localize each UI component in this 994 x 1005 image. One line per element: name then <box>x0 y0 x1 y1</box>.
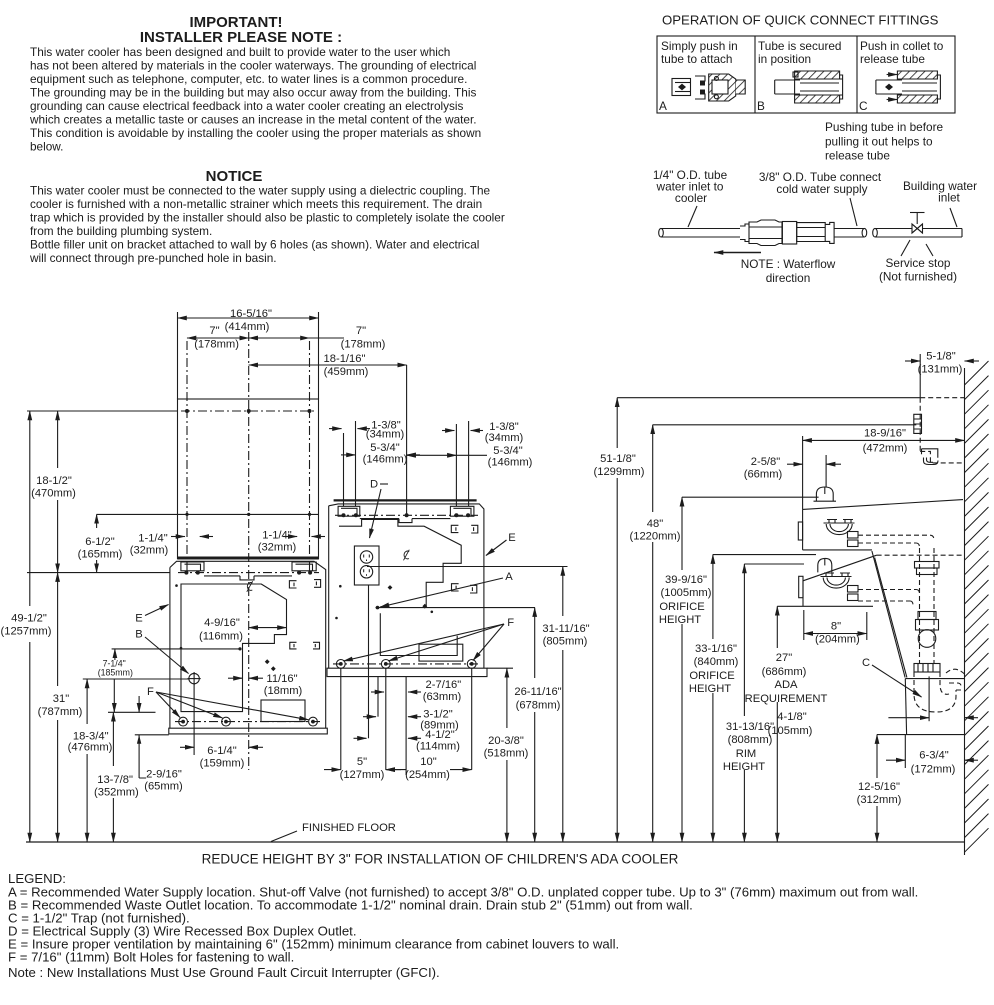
svg-text:7": 7" <box>356 325 366 337</box>
svg-text:8": 8" <box>831 621 841 633</box>
lower bubbler <box>818 558 832 572</box>
dimension 33-1/16 orifice height <box>689 555 739 842</box>
svg-text:Push in collet to: Push in collet to <box>860 39 944 53</box>
floor line <box>26 822 965 842</box>
svg-text:(178mm): (178mm) <box>194 339 239 351</box>
svg-text:pulling it out helps to: pulling it out helps to <box>825 134 933 148</box>
dimension 1-3/8 right pair <box>442 421 524 444</box>
svg-text:(66mm): (66mm) <box>744 469 783 481</box>
right cooler wall bolts F <box>333 660 480 669</box>
svg-text:48": 48" <box>647 518 663 530</box>
supply riser pipe dashed <box>920 548 935 663</box>
bottle filler mounting bracket <box>914 414 922 433</box>
svg-text:FINISHED FLOOR: FINISHED FLOOR <box>302 822 396 834</box>
fitting glyph A <box>672 74 745 101</box>
right cooler louver clips <box>451 525 478 593</box>
svg-text:(472mm): (472mm) <box>863 443 908 455</box>
dimension 2-5/8 <box>744 455 841 487</box>
svg-text:7": 7" <box>209 325 219 337</box>
svg-text:REQUIREMENT: REQUIREMENT <box>745 693 828 705</box>
dimension 13-7/8 <box>94 679 139 842</box>
lower cooler profile <box>799 555 877 606</box>
svg-text:grounding can cause electrical: grounding can cause electrical feedback … <box>30 99 464 113</box>
svg-text:equipment such as telephone, c: equipment such as telephone, computer, e… <box>30 72 467 86</box>
svg-text:33-1/16": 33-1/16" <box>695 643 737 655</box>
label C <box>862 657 922 697</box>
svg-text:(131mm): (131mm) <box>918 364 963 376</box>
extension line 18-1/16 to right cooler center <box>406 365 408 514</box>
right cooler center marks <box>335 585 433 619</box>
quick connect fittings panel <box>657 13 955 114</box>
right cooler interior outline <box>339 520 461 608</box>
right cooler hole column lines <box>344 421 469 506</box>
svg-text:18-1/2": 18-1/2" <box>36 475 72 487</box>
dimension 48 <box>630 425 681 842</box>
svg-text:31": 31" <box>53 693 69 705</box>
dimension 8 inch <box>804 610 867 646</box>
svg-text:cooler: cooler <box>675 191 707 205</box>
svg-text:(805mm): (805mm) <box>543 636 588 648</box>
svg-text:HEIGHT: HEIGHT <box>659 614 701 626</box>
svg-text:E: E <box>135 613 142 625</box>
label E right <box>486 532 516 556</box>
dimension 3-1/2 <box>363 708 459 731</box>
right cooler louver opening <box>419 644 463 661</box>
footer <box>8 852 918 981</box>
left cooler tab bolt row <box>178 571 319 575</box>
svg-text:(146mm): (146mm) <box>488 457 533 469</box>
svg-text:(172mm): (172mm) <box>911 764 956 776</box>
svg-text:ORIFICE: ORIFICE <box>659 601 704 613</box>
label F right <box>344 617 515 661</box>
alcove recess <box>877 679 965 735</box>
svg-text:REDUCE HEIGHT BY 3" FOR INSTAL: REDUCE HEIGHT BY 3" FOR INSTALLATION OF … <box>202 852 679 867</box>
svg-text:Pushing tube in before: Pushing tube in before <box>825 120 943 134</box>
svg-text:5-1/8": 5-1/8" <box>926 351 955 363</box>
svg-text:C: C <box>862 657 870 669</box>
dimension 5-3/4 right <box>407 445 533 469</box>
svg-text:release tube: release tube <box>825 149 890 163</box>
bottle filler panel <box>177 399 319 559</box>
dimension 39-9/16 orifice height <box>659 497 712 842</box>
svg-text:13-7/8": 13-7/8" <box>97 774 133 786</box>
svg-text:(476mm): (476mm) <box>68 742 113 754</box>
svg-text:(18mm): (18mm) <box>264 685 303 697</box>
svg-text:tube to attach: tube to attach <box>661 52 733 66</box>
supply height reference line left <box>112 647 242 650</box>
svg-text:4-9/16": 4-9/16" <box>204 617 240 629</box>
upper basin drain <box>824 520 859 547</box>
left cooler top bracket tabs <box>181 562 316 580</box>
svg-text:18-1/16": 18-1/16" <box>324 353 366 365</box>
leaders service stop <box>901 240 933 256</box>
lower drain pipes dashed <box>858 590 920 606</box>
cooler body taper <box>872 551 907 735</box>
svg-text:49-1/2": 49-1/2" <box>11 613 47 625</box>
svg-text:(1220mm): (1220mm) <box>630 531 681 543</box>
svg-text:(105mm): (105mm) <box>768 725 813 737</box>
panel hole centerline right <box>309 341 311 573</box>
dimension 31 <box>38 573 83 842</box>
left cooler louver clips <box>289 580 320 649</box>
svg-text:(204mm): (204mm) <box>815 634 860 646</box>
right cooler bottom flange <box>327 668 487 676</box>
dimension 5-1/8 <box>905 351 979 398</box>
svg-text:(116mm): (116mm) <box>199 631 243 643</box>
electrical outlet box D <box>354 546 379 585</box>
svg-text:27": 27" <box>776 652 792 664</box>
panel edge extensions <box>178 312 319 399</box>
svg-text:6-1/2": 6-1/2" <box>85 536 114 548</box>
svg-text:(185mm): (185mm) <box>98 668 133 678</box>
svg-text:F: F <box>147 686 154 698</box>
svg-text:5": 5" <box>357 756 367 768</box>
waste height reference line left <box>83 678 189 680</box>
lower basin drain <box>821 573 859 601</box>
fitting glyph C <box>876 71 941 103</box>
dimension 6-1/2 <box>78 514 123 572</box>
dimension 49-1/2 <box>1 411 52 842</box>
wall <box>964 368 966 855</box>
svg-text:(159mm): (159mm) <box>200 758 245 770</box>
dimension 5 inch <box>324 756 401 781</box>
bottle filler side profile dashed <box>920 398 964 463</box>
svg-text:1-1/4": 1-1/4" <box>138 533 167 545</box>
svg-text:which creates a metallic taste: which creates a metallic taste or causes… <box>29 113 477 127</box>
svg-text:This water cooler must be conn: This water cooler must be connected to t… <box>30 184 491 198</box>
svg-text:12-5/16": 12-5/16" <box>858 781 900 793</box>
svg-text:A: A <box>505 571 513 583</box>
svg-text:(678mm): (678mm) <box>516 700 561 712</box>
svg-text:(32mm): (32mm) <box>130 545 169 557</box>
svg-text:ORIFICE: ORIFICE <box>689 670 734 682</box>
left cooler bottom flange <box>169 728 327 734</box>
dimension 31-13/16 rim height <box>723 564 774 842</box>
building water tube <box>873 228 962 237</box>
svg-text:(787mm): (787mm) <box>38 706 83 718</box>
panel lower hole row reference line <box>97 513 319 515</box>
label B <box>135 629 188 674</box>
dimension 7-1/4 <box>98 649 133 678</box>
svg-text:18-9/16": 18-9/16" <box>864 428 906 440</box>
lower cooler hidden top dashed <box>877 554 963 556</box>
svg-text:The grounding may be in the bu: The grounding may be in the building but… <box>30 86 476 100</box>
dimension 26-11/16 <box>514 608 561 842</box>
dimension 1-1/4 right <box>258 530 325 554</box>
svg-text:cooler is furnished with a non: cooler is furnished with a non-metallic … <box>30 197 482 211</box>
svg-text:This condition is avoidable by: This condition is avoidable by installin… <box>30 126 481 140</box>
svg-text:(146mm): (146mm) <box>363 454 408 466</box>
svg-text:6-1/4": 6-1/4" <box>207 745 236 757</box>
svg-text:(459mm): (459mm) <box>324 366 369 378</box>
svg-text:NOTE : Waterflow: NOTE : Waterflow <box>741 257 836 271</box>
svg-text:trap which is provided by the: trap which is provided by the installer … <box>30 211 505 225</box>
svg-text:51-1/8": 51-1/8" <box>600 453 636 465</box>
svg-text:2-7/16": 2-7/16" <box>426 679 462 691</box>
svg-text:(127mm): (127mm) <box>340 769 385 781</box>
svg-text:3-1/2": 3-1/2" <box>423 708 452 720</box>
inline coupling body <box>740 220 834 246</box>
dimension 6-3/4 <box>886 735 978 776</box>
wall hatching <box>965 361 989 852</box>
svg-text:has not been altered by materi: has not been altered by materials in the… <box>30 59 476 73</box>
right cooler cabinet <box>329 500 484 668</box>
label D <box>370 479 389 539</box>
right cooler tab bolt row <box>335 513 478 517</box>
svg-text:will connect through pre-punch: will connect through pre-punched hole in… <box>29 251 277 265</box>
svg-text:2-9/16": 2-9/16" <box>146 769 182 781</box>
left cooler wall bolts F <box>175 717 320 726</box>
dimension 18-1/16 <box>249 353 407 378</box>
upper orifice reference line <box>682 496 819 498</box>
dimension 20-3/8 <box>484 668 529 842</box>
upper drain pipes dashed <box>858 535 934 547</box>
svg-text:1-1/4": 1-1/4" <box>262 530 291 542</box>
dimension 31-11/16 <box>542 567 589 843</box>
left reference line top holes <box>27 410 178 412</box>
tube assembly left tube <box>659 228 740 237</box>
svg-text:5-3/4": 5-3/4" <box>370 442 399 454</box>
svg-text:Note : New Installations Must: Note : New Installations Must Use Ground… <box>8 965 440 980</box>
svg-text:26-11/16": 26-11/16" <box>514 686 561 698</box>
svg-text:F = 7/16" (11mm) Bolt Holes fo: F = 7/16" (11mm) Bolt Holes for fastenin… <box>8 950 294 965</box>
svg-text:below.: below. <box>30 140 63 154</box>
svg-text:20-3/8": 20-3/8" <box>488 735 524 747</box>
svg-text:ADA: ADA <box>774 679 798 691</box>
dimension 7 inch right <box>249 325 386 351</box>
svg-text:(34mm): (34mm) <box>485 432 524 444</box>
svg-text:(165mm): (165mm) <box>78 549 123 561</box>
supply height reference line right <box>376 606 536 610</box>
lower orifice reference line <box>713 554 816 556</box>
dimension 4-9/16 <box>199 617 286 643</box>
svg-text:4-1/8": 4-1/8" <box>777 711 806 723</box>
svg-text:D: D <box>370 479 378 491</box>
svg-text:Bottle filler unit on bracket: Bottle filler unit on bracket attached t… <box>30 238 479 252</box>
panel hole centerline left <box>186 341 188 573</box>
service stop valve <box>910 213 925 234</box>
dimension 18-9/16 <box>803 428 965 510</box>
svg-text:direction: direction <box>766 271 811 285</box>
svg-text:E: E <box>508 532 515 544</box>
svg-text:HEIGHT: HEIGHT <box>723 761 765 773</box>
svg-text:NOTICE: NOTICE <box>206 168 263 185</box>
left cooler louver opening <box>261 700 305 722</box>
svg-text:C: C <box>859 99 868 113</box>
svg-text:(1257mm): (1257mm) <box>1 626 52 638</box>
svg-text:A: A <box>659 99 667 113</box>
svg-text:HEIGHT: HEIGHT <box>689 683 731 695</box>
dimension 51-1/8 <box>594 398 645 842</box>
trap C dashed <box>914 669 965 712</box>
svg-text:(312mm): (312mm) <box>857 794 902 806</box>
dimension 12-5/16 <box>857 735 902 842</box>
svg-text:4-1/2": 4-1/2" <box>425 729 454 741</box>
rim height reference line <box>744 563 804 565</box>
svg-text:(32mm): (32mm) <box>258 542 297 554</box>
dimension 27 ada requirement <box>745 606 828 842</box>
svg-text:B: B <box>757 99 765 113</box>
bolt extension lines below right cooler <box>341 585 472 775</box>
svg-text:(63mm): (63mm) <box>423 691 462 703</box>
dimension 6-1/4 <box>180 684 263 770</box>
left cooler center marks <box>175 584 276 671</box>
centerline symbol left cooler <box>247 581 253 592</box>
svg-text:39-9/16": 39-9/16" <box>665 574 707 586</box>
right cooler lower compartment <box>380 613 457 655</box>
dimension 7 inch left <box>187 325 249 351</box>
svg-text:(352mm): (352mm) <box>94 786 139 798</box>
svg-text:2-5/8": 2-5/8" <box>751 456 780 468</box>
svg-text:Simply push in: Simply push in <box>661 39 738 53</box>
dimension 18-3/4 <box>68 679 113 842</box>
svg-text:(840mm): (840mm) <box>694 656 739 668</box>
header text block <box>29 14 505 265</box>
tube assembly diagram labels <box>653 120 977 285</box>
dimension 4-1/8 <box>768 676 978 737</box>
svg-text:Tube is secured: Tube is secured <box>758 39 842 53</box>
svg-text:release tube: release tube <box>860 52 925 66</box>
flange top reference right <box>487 667 513 669</box>
label A <box>380 571 513 607</box>
dimension 1-3/8 left pair <box>329 420 405 441</box>
dimension 2-9/16 <box>137 696 183 793</box>
label F left <box>147 686 309 720</box>
waterflow arrow <box>714 252 761 254</box>
svg-text:(518mm): (518mm) <box>484 748 529 760</box>
dimension 11/16 <box>228 673 303 697</box>
leader 1/4 tube label <box>688 206 697 227</box>
right cooler bracket tabs <box>338 506 474 522</box>
leader 3/8 tube label <box>850 198 857 226</box>
bottle filler top reference line <box>617 397 920 399</box>
svg-text:10": 10" <box>420 756 436 768</box>
svg-text:16-5/16": 16-5/16" <box>230 308 272 320</box>
svg-text:(254mm): (254mm) <box>405 769 450 781</box>
fitting glyph B <box>775 71 843 103</box>
lower reference line 13-7/8 <box>108 711 156 713</box>
svg-text:(1299mm): (1299mm) <box>594 466 645 478</box>
left cooler cabinet <box>170 561 326 728</box>
svg-text:6-3/4": 6-3/4" <box>919 750 948 762</box>
svg-text:11/16": 11/16" <box>266 673 297 685</box>
svg-text:This water cooler has been des: This water cooler has been designed and … <box>30 45 450 59</box>
bottle filler spout <box>922 449 939 465</box>
label E left <box>135 605 168 625</box>
svg-text:(808mm): (808mm) <box>728 734 773 746</box>
flange bottom reference line <box>135 734 169 736</box>
svg-text:31-11/16": 31-11/16" <box>542 623 589 635</box>
svg-text:from the building plumbing sys: from the building plumbing system. <box>30 224 212 238</box>
left reference line bracket <box>27 572 170 574</box>
svg-text:Service stop: Service stop <box>886 256 951 270</box>
centerline symbol right cooler <box>404 550 410 561</box>
svg-text:(686mm): (686mm) <box>762 666 807 678</box>
riser fittings <box>914 562 940 673</box>
upper bubbler <box>814 487 837 501</box>
svg-text:(Not furnished): (Not furnished) <box>879 270 957 284</box>
svg-text:(178mm): (178mm) <box>341 339 386 351</box>
svg-text:(470mm): (470mm) <box>31 488 76 500</box>
svg-text:5-3/4": 5-3/4" <box>493 445 522 457</box>
dimension 18-1/2 <box>31 411 76 573</box>
svg-text:(114mm): (114mm) <box>416 740 460 752</box>
svg-text:F: F <box>507 617 514 629</box>
svg-text:(34mm): (34mm) <box>366 429 405 441</box>
svg-text:OPERATION OF QUICK CONNECT FIT: OPERATION OF QUICK CONNECT FITTINGS <box>662 13 939 28</box>
svg-text:INSTALLER PLEASE NOTE :: INSTALLER PLEASE NOTE : <box>140 29 342 46</box>
svg-text:inlet: inlet <box>938 191 960 205</box>
tube assembly right tube of coupling <box>834 228 867 237</box>
dimension 1-1/4 left <box>130 533 213 557</box>
left cooler interior outline <box>181 584 287 712</box>
panel top hole row <box>181 409 315 516</box>
svg-text:RIM: RIM <box>736 748 757 760</box>
bracket top reference line <box>653 424 917 426</box>
svg-text:(1005mm): (1005mm) <box>661 587 712 599</box>
svg-text:(65mm): (65mm) <box>144 781 183 793</box>
dimension 10 inch <box>386 756 472 781</box>
dimension 4-1/2 <box>354 729 461 752</box>
electrical height reference line <box>367 566 568 568</box>
svg-text:in position: in position <box>758 52 811 66</box>
waste outlet B drain <box>188 672 201 685</box>
dimension 2-7/16 <box>371 679 462 703</box>
leader building water inlet <box>950 208 957 227</box>
dimension 5-3/4 left <box>341 442 420 466</box>
dimension 16-5/16 <box>178 308 319 333</box>
svg-text:B: B <box>135 629 142 641</box>
ada clearance reference line <box>777 605 803 607</box>
panel hole centerline center <box>248 332 250 770</box>
upper cooler profile <box>798 500 963 550</box>
svg-text:cold water supply: cold water supply <box>776 182 867 196</box>
svg-text:(414mm): (414mm) <box>225 321 270 333</box>
